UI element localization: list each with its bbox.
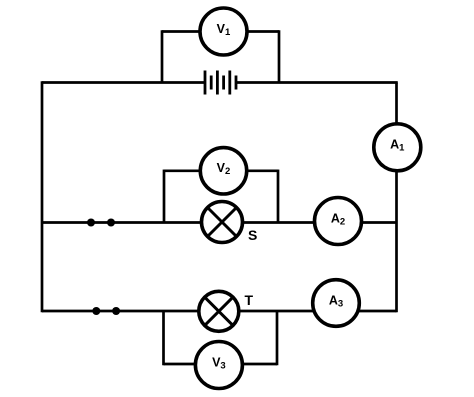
svg-text:T: T (245, 292, 254, 308)
svg-text:S: S (248, 227, 257, 243)
